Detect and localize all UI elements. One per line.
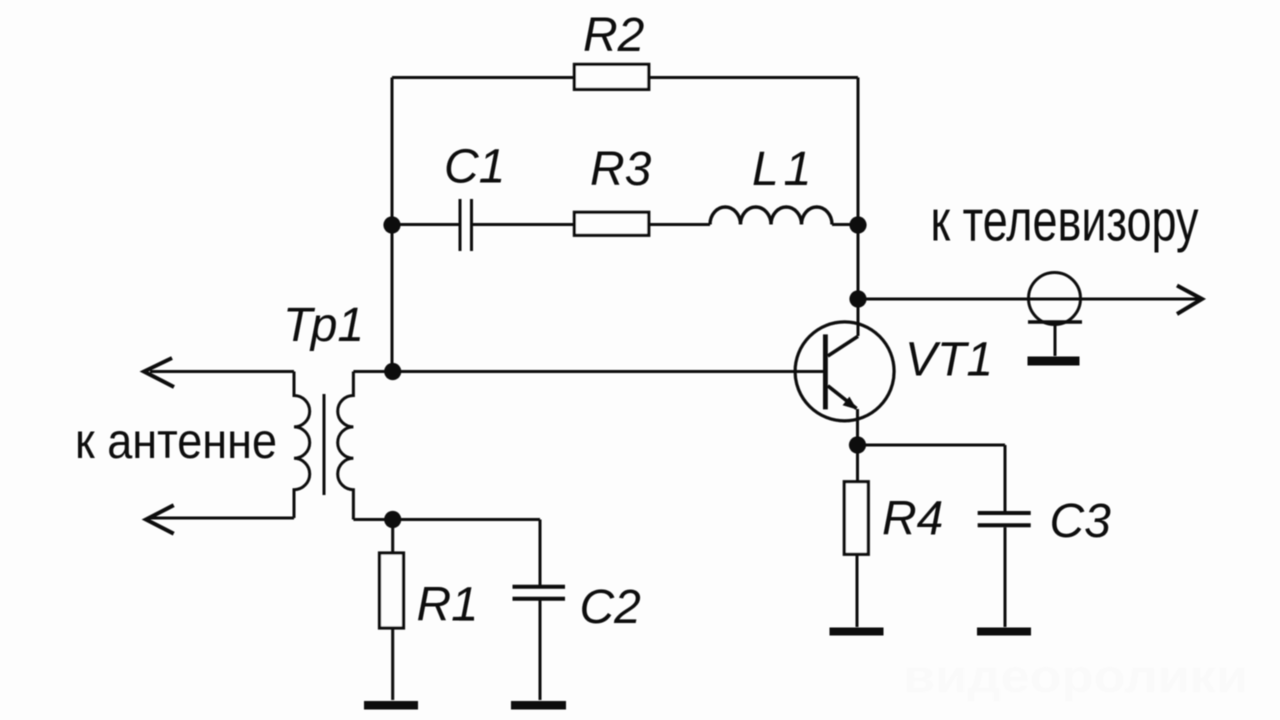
svg-text:C3: C3 <box>1050 495 1112 548</box>
svg-text:к антенне: к антенне <box>75 413 277 469</box>
svg-text:R3: R3 <box>590 143 652 196</box>
svg-text:видеоролики: видеоролики <box>903 650 1248 702</box>
svg-text:C1: C1 <box>444 141 505 194</box>
svg-text:к телевизору: к телевизору <box>931 189 1199 254</box>
svg-text:C2: C2 <box>580 581 641 634</box>
svg-text:R2: R2 <box>583 9 644 62</box>
svg-text:Тр1: Тр1 <box>283 299 364 352</box>
svg-text:VT1: VT1 <box>905 334 993 387</box>
svg-text:R4: R4 <box>882 493 943 546</box>
svg-text:L1: L1 <box>752 143 817 196</box>
svg-text:R1: R1 <box>417 579 478 632</box>
